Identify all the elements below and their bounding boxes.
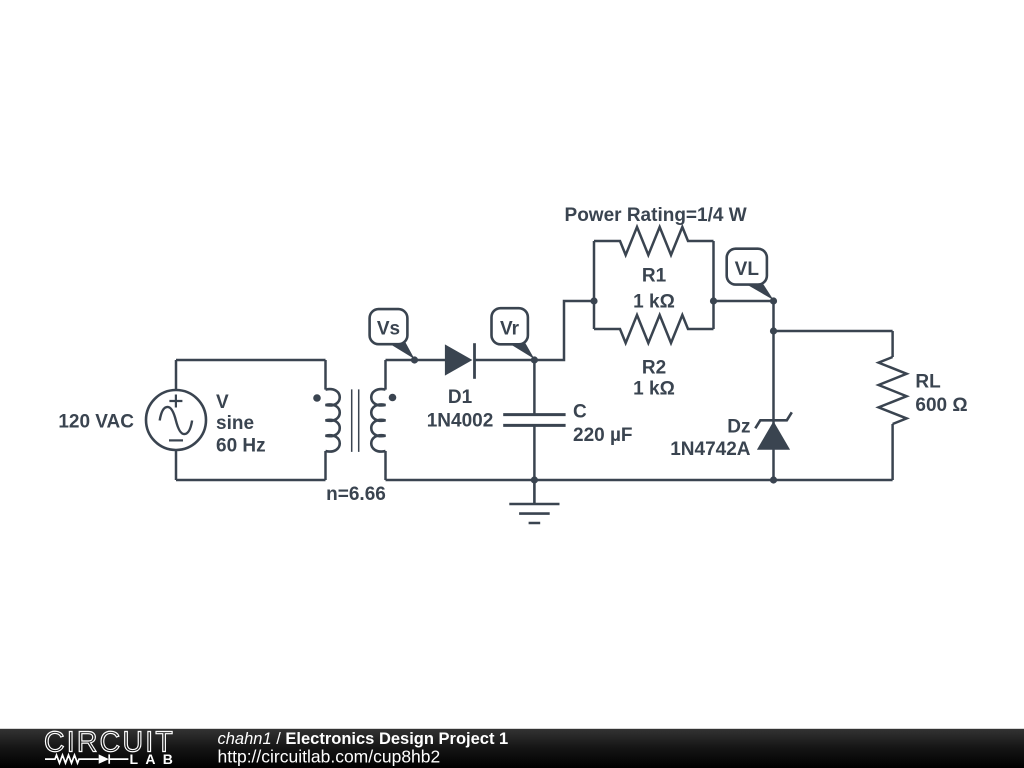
resistor RL bottom lead bbox=[891, 424, 894, 480]
transformer core lines bbox=[352, 389, 359, 452]
transformer primary winding stub top bbox=[324, 360, 327, 390]
svg-text:R2: R2 bbox=[642, 358, 666, 379]
svg-text:V: V bbox=[216, 392, 229, 413]
wire primary left vertical bbox=[175, 360, 178, 390]
footer bar bbox=[0, 729, 1024, 768]
svg-text:1N4002: 1N4002 bbox=[427, 411, 494, 432]
resistor R1 left branch bbox=[593, 241, 596, 329]
voltage source minus sign bbox=[169, 439, 183, 441]
capacitor C plates bbox=[503, 415, 565, 426]
svg-text:1 kΩ: 1 kΩ bbox=[633, 379, 675, 400]
svg-text:C: C bbox=[573, 402, 587, 423]
wire capacitor to bottom rail bbox=[533, 425, 536, 480]
transformer secondary winding stub top bbox=[384, 360, 387, 390]
ground symbol bbox=[509, 480, 559, 523]
wire Vr node down to capacitor bbox=[533, 360, 536, 415]
svg-text:chahn1 / Electronics Design Pr: chahn1 / Electronics Design Project 1 bbox=[218, 730, 509, 748]
svg-text:n=6.66: n=6.66 bbox=[326, 484, 386, 505]
svg-text:Vr: Vr bbox=[500, 319, 520, 340]
zener diode Dz triangle bbox=[757, 421, 790, 450]
node dot ground junction bbox=[531, 476, 538, 483]
voltage source sine wave bbox=[160, 407, 192, 434]
wire diode to Vr and corner up bbox=[474, 301, 594, 360]
svg-text:Dz: Dz bbox=[727, 416, 750, 437]
svg-text:D1: D1 bbox=[448, 387, 473, 408]
resistor RL body bbox=[879, 357, 907, 424]
transformer secondary winding stub bottom bbox=[384, 451, 387, 480]
svg-text:Vs: Vs bbox=[377, 319, 400, 340]
transformer secondary winding coils bbox=[371, 389, 385, 451]
wire VL node down to bottom rail bbox=[772, 301, 775, 480]
svg-text:120 VAC: 120 VAC bbox=[58, 412, 134, 433]
svg-text:600 Ω: 600 Ω bbox=[915, 395, 967, 416]
transformer primary phase dot bbox=[313, 394, 321, 402]
wire primary left vertical below source bbox=[175, 450, 178, 480]
svg-text:VL: VL bbox=[735, 259, 760, 280]
svg-text:220 µF: 220 µF bbox=[573, 425, 633, 446]
flag VL bbox=[727, 249, 774, 300]
wire primary bottom rail bbox=[176, 479, 326, 482]
footer logo diode bbox=[99, 754, 109, 763]
wire VL branch to RL bbox=[774, 330, 893, 333]
svg-text:R1: R1 bbox=[642, 266, 667, 287]
node dot VL bbox=[770, 297, 777, 304]
voltage source V circle bbox=[146, 390, 206, 450]
svg-text:Power Rating=1/4 W: Power Rating=1/4 W bbox=[565, 205, 747, 226]
footer logo schematic wire bbox=[45, 754, 128, 763]
resistor R1 right branch bbox=[712, 241, 715, 329]
svg-text:http://circuitlab.com/cup8hb2: http://circuitlab.com/cup8hb2 bbox=[218, 747, 441, 767]
node dot Vs bbox=[411, 356, 418, 363]
resistor R2 body bbox=[594, 315, 714, 343]
resistor R1 body bbox=[594, 227, 714, 255]
transformer primary winding coils bbox=[326, 389, 340, 451]
wire secondary top rail to diode bbox=[386, 359, 446, 362]
svg-text:sine: sine bbox=[216, 413, 254, 434]
node dot R right junction bbox=[710, 297, 717, 304]
node dot VL-RL branch bbox=[770, 327, 777, 334]
flag Vr bbox=[492, 308, 535, 359]
transformer secondary phase dot bbox=[389, 394, 397, 402]
wire bottom rail secondary bbox=[386, 479, 893, 482]
node dot R left junction bbox=[590, 297, 597, 304]
diode D1 cathode bar bbox=[473, 343, 476, 379]
svg-text:60 Hz: 60 Hz bbox=[216, 436, 266, 457]
node dot zener bottom bbox=[770, 476, 777, 483]
voltage source plus sign bbox=[169, 395, 182, 408]
node dot Vr bbox=[531, 356, 538, 363]
svg-text:RL: RL bbox=[915, 372, 941, 393]
flag Vs bbox=[370, 309, 415, 359]
diode D1 triangle bbox=[445, 344, 473, 375]
svg-text:1N4742A: 1N4742A bbox=[670, 439, 751, 460]
wire R junction to VL node bbox=[714, 300, 774, 303]
zener diode Dz cathode bar bbox=[755, 412, 792, 428]
resistor RL top lead bbox=[891, 331, 894, 357]
svg-text:1 kΩ: 1 kΩ bbox=[633, 291, 675, 312]
wire primary top rail bbox=[176, 359, 326, 362]
transformer primary winding stub bottom bbox=[324, 451, 327, 480]
svg-text:LAB: LAB bbox=[130, 751, 181, 767]
